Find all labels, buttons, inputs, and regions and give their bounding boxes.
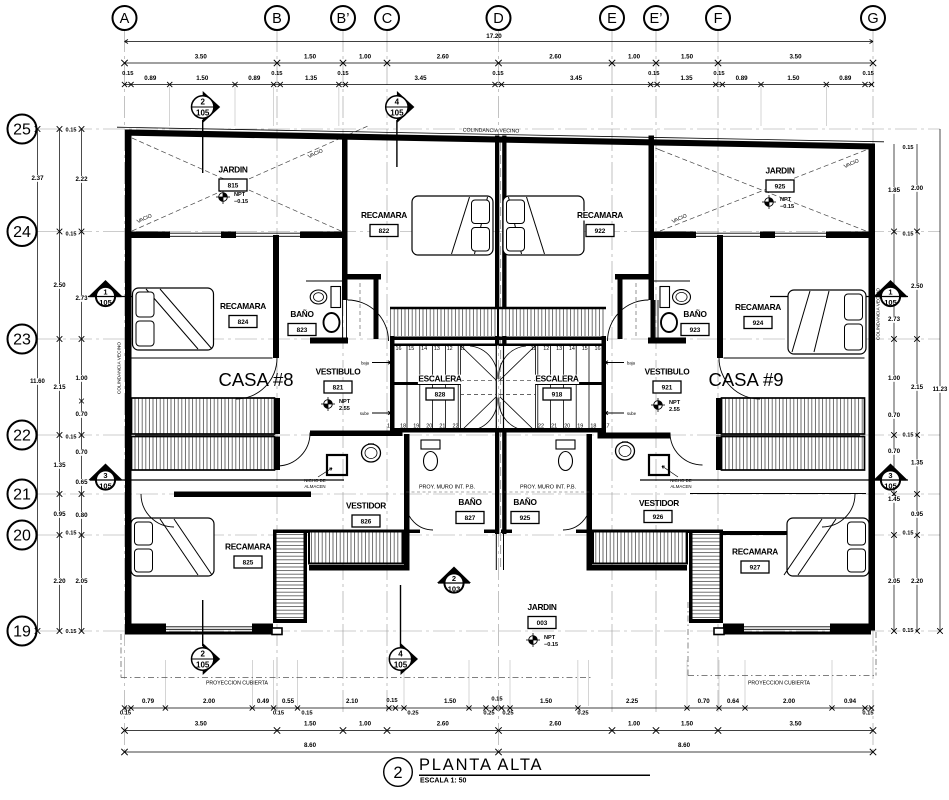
svg-text:11: 11 — [531, 346, 537, 352]
svg-text:F: F — [714, 11, 723, 27]
svg-text:VESTIDOR: VESTIDOR — [639, 498, 679, 508]
svg-text:1.50: 1.50 — [196, 75, 209, 82]
svg-text:1.00: 1.00 — [75, 375, 88, 382]
svg-text:3: 3 — [103, 471, 107, 480]
svg-text:925: 925 — [775, 183, 786, 190]
svg-text:0.55: 0.55 — [282, 698, 295, 705]
svg-text:0.15: 0.15 — [648, 71, 660, 77]
svg-text:22: 22 — [538, 424, 544, 430]
svg-text:15: 15 — [582, 346, 588, 352]
svg-text:ALMACEN: ALMACEN — [304, 484, 325, 489]
svg-text:925: 925 — [520, 515, 531, 522]
svg-text:COLINDANCIA VECINO: COLINDANCIA VECINO — [463, 127, 520, 134]
svg-text:821: 821 — [333, 384, 344, 391]
svg-text:BAÑO: BAÑO — [683, 309, 707, 319]
svg-text:105: 105 — [99, 298, 112, 307]
svg-text:0.65: 0.65 — [75, 479, 88, 486]
svg-text:VESTIBULO: VESTIBULO — [316, 367, 362, 377]
svg-text:0.15: 0.15 — [66, 531, 77, 537]
svg-text:2.20: 2.20 — [911, 578, 924, 585]
svg-text:105: 105 — [99, 482, 112, 491]
svg-text:2.15: 2.15 — [911, 384, 924, 391]
svg-text:815: 815 — [228, 182, 239, 189]
svg-text:826: 826 — [361, 518, 372, 525]
svg-text:0.15: 0.15 — [903, 433, 914, 439]
svg-text:3.50: 3.50 — [195, 54, 208, 61]
svg-text:927: 927 — [750, 564, 761, 571]
svg-text:0.80: 0.80 — [75, 512, 88, 519]
svg-text:RECAMARA: RECAMARA — [577, 210, 623, 220]
svg-text:1.85: 1.85 — [888, 187, 901, 194]
svg-text:1.35: 1.35 — [680, 75, 693, 82]
svg-text:2.00: 2.00 — [203, 698, 216, 705]
svg-text:21: 21 — [13, 487, 31, 504]
svg-text:105: 105 — [394, 661, 408, 670]
svg-text:NICHO DE: NICHO DE — [304, 478, 326, 483]
svg-text:19: 19 — [13, 624, 31, 641]
svg-text:0.49: 0.49 — [257, 698, 270, 705]
svg-text:BAÑO: BAÑO — [513, 497, 537, 507]
svg-text:0.15: 0.15 — [66, 435, 77, 441]
svg-text:0.94: 0.94 — [844, 698, 857, 705]
svg-text:0.15: 0.15 — [903, 628, 914, 634]
svg-text:G: G — [867, 11, 878, 27]
svg-text:922: 922 — [595, 228, 606, 235]
svg-text:1.45: 1.45 — [888, 496, 901, 503]
svg-text:14: 14 — [421, 346, 427, 352]
svg-text:0.64: 0.64 — [727, 698, 740, 705]
svg-text:0.15: 0.15 — [903, 232, 914, 238]
svg-text:003: 003 — [537, 620, 548, 627]
svg-text:−0.15: −0.15 — [544, 642, 558, 648]
svg-text:0.95: 0.95 — [911, 511, 924, 518]
svg-text:0.79: 0.79 — [142, 698, 155, 705]
svg-text:17: 17 — [604, 424, 610, 430]
svg-text:3.45: 3.45 — [570, 75, 583, 82]
svg-text:B: B — [272, 11, 282, 27]
svg-text:0.15: 0.15 — [66, 128, 77, 134]
svg-text:ALMACEN: ALMACEN — [670, 484, 691, 489]
svg-text:0.15: 0.15 — [386, 698, 398, 704]
svg-text:18: 18 — [590, 424, 596, 430]
svg-text:2.50: 2.50 — [911, 283, 924, 290]
svg-text:19: 19 — [413, 424, 419, 430]
svg-text:NPT: NPT — [339, 399, 351, 405]
svg-text:3.45: 3.45 — [414, 75, 427, 82]
svg-text:E’: E’ — [650, 11, 663, 27]
svg-text:B’: B’ — [337, 11, 350, 27]
svg-text:13: 13 — [434, 346, 440, 352]
svg-text:0.25: 0.25 — [407, 711, 419, 717]
svg-text:0.15: 0.15 — [122, 71, 134, 77]
svg-text:1.50: 1.50 — [304, 721, 317, 728]
svg-text:21: 21 — [551, 424, 557, 430]
svg-text:8.60: 8.60 — [678, 742, 691, 749]
svg-text:0.15: 0.15 — [863, 71, 875, 77]
svg-text:18: 18 — [400, 424, 406, 430]
svg-text:0.15: 0.15 — [862, 711, 874, 717]
svg-text:JARDIN: JARDIN — [527, 602, 556, 612]
svg-text:0.15: 0.15 — [491, 697, 503, 703]
svg-text:13: 13 — [556, 346, 562, 352]
svg-text:D: D — [493, 11, 503, 27]
svg-text:COLINDANCIA VECINO: COLINDANCIA VECINO — [117, 342, 123, 395]
svg-text:0.15: 0.15 — [492, 71, 504, 77]
svg-text:25: 25 — [13, 122, 31, 139]
svg-text:1.35: 1.35 — [53, 462, 66, 469]
svg-text:22: 22 — [13, 428, 31, 445]
svg-text:JARDIN: JARDIN — [218, 165, 247, 175]
svg-text:2.05: 2.05 — [75, 578, 88, 585]
svg-text:1.00: 1.00 — [628, 721, 641, 728]
svg-text:0.15: 0.15 — [273, 711, 285, 717]
svg-text:2.37: 2.37 — [31, 175, 44, 182]
svg-text:1.00: 1.00 — [888, 375, 901, 382]
svg-text:ESCALERA: ESCALERA — [535, 374, 579, 384]
svg-text:2.05: 2.05 — [888, 578, 901, 585]
svg-text:1.50: 1.50 — [304, 54, 317, 61]
svg-text:0.70: 0.70 — [698, 698, 711, 705]
svg-text:2.00: 2.00 — [911, 185, 924, 192]
svg-text:1.50: 1.50 — [681, 54, 694, 61]
svg-text:17: 17 — [387, 424, 393, 430]
svg-text:0.70: 0.70 — [888, 412, 901, 419]
svg-text:0.15: 0.15 — [66, 629, 77, 635]
svg-text:2.50: 2.50 — [53, 282, 66, 289]
svg-text:0.70: 0.70 — [75, 449, 88, 456]
svg-text:RECAMARA: RECAMARA — [220, 301, 266, 311]
svg-text:baja: baja — [361, 361, 370, 366]
svg-text:E: E — [607, 11, 617, 27]
svg-text:0.70: 0.70 — [75, 411, 88, 418]
svg-text:1.35: 1.35 — [911, 460, 924, 467]
svg-text:2.15: 2.15 — [53, 384, 66, 391]
svg-text:PROY. MURO INT. P.B.: PROY. MURO INT. P.B. — [520, 485, 576, 491]
svg-text:822: 822 — [379, 228, 390, 235]
svg-text:0.15: 0.15 — [120, 711, 132, 717]
svg-text:RECAMARA: RECAMARA — [361, 210, 407, 220]
svg-text:PLANTA ALTA: PLANTA ALTA — [419, 756, 543, 774]
svg-text:0.15: 0.15 — [903, 145, 914, 151]
svg-text:0.15: 0.15 — [713, 71, 725, 77]
svg-text:BAÑO: BAÑO — [458, 497, 482, 507]
svg-text:23: 23 — [13, 332, 31, 349]
svg-text:RECAMARA: RECAMARA — [732, 547, 778, 557]
svg-text:828: 828 — [435, 391, 446, 398]
svg-text:22: 22 — [453, 424, 459, 430]
svg-text:11.23: 11.23 — [933, 387, 948, 393]
svg-text:921: 921 — [662, 384, 673, 391]
svg-text:2.00: 2.00 — [783, 698, 796, 705]
svg-text:105: 105 — [390, 109, 404, 118]
svg-text:2: 2 — [452, 574, 456, 583]
svg-text:1.50: 1.50 — [444, 698, 457, 705]
svg-text:0.15: 0.15 — [66, 232, 77, 238]
svg-text:823: 823 — [297, 327, 308, 334]
svg-text:NPT: NPT — [669, 400, 681, 406]
svg-text:825: 825 — [243, 559, 254, 566]
svg-text:2.55: 2.55 — [669, 407, 680, 413]
svg-text:923: 923 — [690, 327, 701, 334]
svg-text:926: 926 — [653, 514, 664, 521]
svg-text:0.25: 0.25 — [502, 711, 514, 717]
svg-text:827: 827 — [465, 515, 476, 522]
svg-text:VESTIDOR: VESTIDOR — [346, 501, 386, 511]
svg-text:24: 24 — [13, 224, 31, 241]
svg-text:C: C — [382, 11, 392, 27]
svg-text:20: 20 — [564, 424, 570, 430]
svg-text:3: 3 — [888, 471, 892, 480]
svg-text:918: 918 — [552, 391, 563, 398]
svg-text:2.60: 2.60 — [549, 721, 562, 728]
svg-text:16: 16 — [595, 346, 601, 352]
svg-text:RECAMARA: RECAMARA — [225, 542, 271, 552]
svg-text:1.50: 1.50 — [681, 721, 694, 728]
svg-text:1.50: 1.50 — [540, 698, 553, 705]
svg-text:0.25: 0.25 — [483, 711, 495, 717]
svg-text:NPT: NPT — [780, 197, 792, 203]
svg-text:2.60: 2.60 — [437, 721, 450, 728]
svg-text:2.60: 2.60 — [437, 54, 450, 61]
svg-text:sube: sube — [627, 411, 637, 416]
svg-text:11.60: 11.60 — [30, 379, 45, 385]
svg-text:−0.15: −0.15 — [234, 199, 248, 205]
svg-text:1: 1 — [103, 288, 107, 297]
svg-text:PROYECCION CUBIERTA: PROYECCION CUBIERTA — [206, 681, 269, 687]
svg-text:4: 4 — [398, 650, 403, 659]
svg-text:0.89: 0.89 — [144, 75, 157, 82]
svg-text:105: 105 — [196, 109, 210, 118]
svg-text:12: 12 — [543, 346, 549, 352]
svg-text:ESCALERA: ESCALERA — [418, 374, 462, 384]
svg-text:0.89: 0.89 — [736, 75, 749, 82]
svg-text:17.20: 17.20 — [486, 33, 502, 40]
svg-text:0.15: 0.15 — [337, 71, 349, 77]
svg-text:0.15: 0.15 — [271, 71, 283, 77]
svg-text:A: A — [120, 11, 130, 27]
svg-text:2.20: 2.20 — [53, 578, 66, 585]
svg-text:2.60: 2.60 — [549, 54, 562, 61]
svg-text:105: 105 — [196, 661, 210, 670]
svg-text:105: 105 — [884, 482, 897, 491]
svg-text:VESTIBULO: VESTIBULO — [645, 367, 691, 377]
svg-text:103: 103 — [448, 585, 461, 594]
svg-text:11: 11 — [460, 346, 466, 352]
svg-text:20: 20 — [426, 424, 432, 430]
svg-text:0.89: 0.89 — [839, 75, 852, 82]
svg-text:824: 824 — [238, 319, 249, 326]
svg-text:16: 16 — [396, 346, 402, 352]
svg-text:2.25: 2.25 — [626, 698, 639, 705]
svg-text:0.95: 0.95 — [53, 511, 66, 518]
svg-text:0.15: 0.15 — [903, 531, 914, 537]
svg-text:3.50: 3.50 — [195, 721, 208, 728]
svg-text:12: 12 — [447, 346, 453, 352]
svg-text:3.50: 3.50 — [789, 721, 802, 728]
svg-text:NPT: NPT — [544, 635, 556, 641]
svg-text:RECAMARA: RECAMARA — [735, 302, 781, 312]
svg-text:NPT: NPT — [234, 192, 246, 198]
svg-text:PROY. MURO INT. P.B.: PROY. MURO INT. P.B. — [419, 485, 475, 491]
svg-text:8.60: 8.60 — [304, 742, 317, 749]
svg-text:105: 105 — [884, 298, 897, 307]
svg-text:2.22: 2.22 — [75, 176, 88, 183]
svg-text:1.00: 1.00 — [359, 721, 372, 728]
svg-text:0.25: 0.25 — [577, 711, 589, 717]
svg-text:21: 21 — [439, 424, 445, 430]
svg-text:2: 2 — [393, 764, 402, 782]
svg-text:COLINDANCIA VECINO: COLINDANCIA VECINO — [876, 288, 882, 341]
svg-text:1.35: 1.35 — [305, 75, 318, 82]
svg-text:baja: baja — [627, 361, 636, 366]
svg-text:CASA #9: CASA #9 — [708, 369, 783, 390]
svg-text:2.55: 2.55 — [339, 406, 350, 412]
svg-text:2.10: 2.10 — [346, 698, 359, 705]
svg-text:14: 14 — [569, 346, 575, 352]
svg-text:2.73: 2.73 — [75, 295, 88, 302]
svg-text:0.15: 0.15 — [301, 711, 313, 717]
svg-text:4: 4 — [395, 98, 400, 107]
svg-text:1.00: 1.00 — [628, 54, 641, 61]
svg-text:15: 15 — [408, 346, 414, 352]
svg-text:0.70: 0.70 — [888, 448, 901, 455]
svg-text:NICHO DE: NICHO DE — [670, 478, 692, 483]
svg-text:BAÑO: BAÑO — [290, 309, 314, 319]
svg-text:sube: sube — [360, 411, 370, 416]
svg-text:PROYECCION CUBIERTA: PROYECCION CUBIERTA — [748, 681, 811, 687]
svg-text:0.89: 0.89 — [248, 75, 261, 82]
svg-text:2: 2 — [200, 650, 205, 659]
svg-text:1.00: 1.00 — [359, 54, 372, 61]
svg-text:JARDIN: JARDIN — [765, 166, 794, 176]
svg-text:19: 19 — [577, 424, 583, 430]
svg-text:1.50: 1.50 — [787, 75, 800, 82]
svg-text:CASA #8: CASA #8 — [218, 369, 293, 390]
svg-text:−0.15: −0.15 — [780, 204, 794, 210]
svg-text:3.50: 3.50 — [789, 54, 802, 61]
svg-text:924: 924 — [753, 320, 764, 327]
svg-text:2.73: 2.73 — [888, 316, 901, 323]
svg-text:2: 2 — [200, 98, 205, 107]
svg-text:20: 20 — [13, 528, 31, 545]
svg-text:1: 1 — [888, 288, 892, 297]
svg-text:ESCALA 1: 50: ESCALA 1: 50 — [420, 778, 467, 785]
